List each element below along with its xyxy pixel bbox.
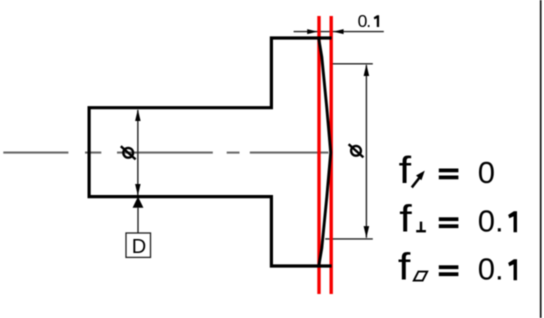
- arrowhead down (right dim): [364, 226, 370, 238]
- part outline (flange + shaft, thick): [89, 38, 332, 266]
- datum triangle (filled) on shaft bottom: [133, 197, 144, 208]
- svg-text:f: f: [399, 148, 412, 191]
- diameter symbol left: [121, 146, 136, 159]
- svg-text:D: D: [132, 236, 146, 258]
- svg-text:0.: 0.: [358, 11, 371, 31]
- equals line 1: [439, 169, 459, 173]
- arrowhead up (left dim): [135, 109, 141, 121]
- svg-text:0.: 0.: [478, 204, 504, 239]
- arrowhead down (left dim): [135, 184, 141, 196]
- datum leader: [137, 208, 139, 233]
- extension line bottom (right diameter dim): [325, 238, 373, 240]
- datum box: [126, 233, 151, 257]
- svg-text:f: f: [398, 245, 411, 288]
- svg-text:f: f: [399, 197, 412, 240]
- arrowhead left of 0.1 dim: [307, 29, 317, 34]
- perpendicular subscript: [416, 222, 426, 232]
- tolerance zone red line left: [317, 16, 320, 294]
- arrowhead up (right dim): [364, 64, 370, 76]
- NE arrow subscript: [412, 178, 420, 188]
- equals line 2: [439, 217, 459, 221]
- dimension line 0.1 (top): [294, 31, 384, 33]
- svg-text:0: 0: [478, 155, 495, 190]
- dimension line left diameter: [137, 110, 139, 195]
- diameter symbol right: [349, 144, 364, 157]
- dimension line right diameter: [365, 65, 367, 238]
- arrowhead right of 0.1 dim: [333, 29, 343, 34]
- right border line: [540, 0, 542, 318]
- svg-text:0.: 0.: [478, 252, 504, 287]
- equals line 3: [439, 265, 459, 269]
- tolerance zone red line right: [330, 16, 333, 294]
- exaggerated flange face (bowed right side): [319, 38, 331, 267]
- centerline (dash-dot axis): [3, 152, 328, 154]
- parallelogram subscript: [414, 272, 427, 281]
- extension line top (right diameter dim): [331, 63, 373, 65]
